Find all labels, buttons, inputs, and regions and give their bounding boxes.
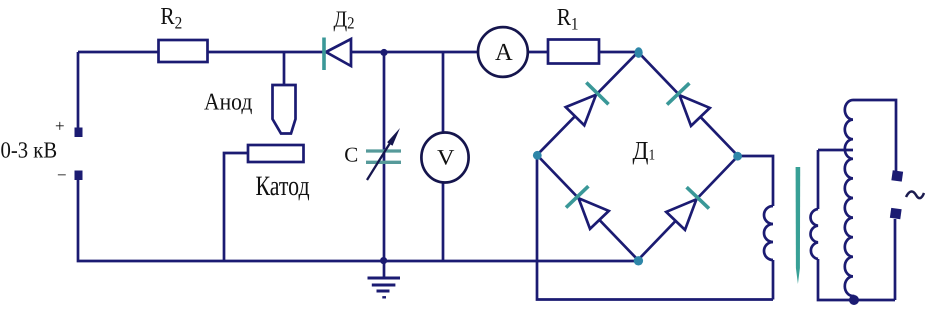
svg-text:Анод: Анод — [204, 90, 252, 116]
svg-text:V: V — [437, 145, 455, 170]
svg-text:−: − — [57, 166, 67, 185]
svg-text:R1: R1 — [557, 4, 579, 33]
svg-text:Д2: Д2 — [334, 7, 355, 33]
svg-text:0-3 кВ: 0-3 кВ — [1, 138, 58, 163]
svg-text:Катод: Катод — [256, 171, 310, 202]
svg-text:+: + — [55, 117, 65, 136]
svg-text:А: А — [495, 39, 513, 66]
svg-text:C: C — [344, 143, 358, 167]
svg-text:R2: R2 — [160, 3, 182, 32]
svg-text:Д1: Д1 — [633, 136, 656, 165]
